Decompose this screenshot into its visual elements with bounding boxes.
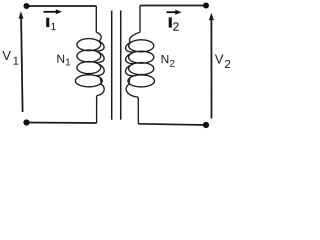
wire bottom-right — [138, 124, 206, 125]
label I2 — [169, 17, 172, 27]
current arrow I2 — [167, 10, 182, 15]
wire bottom-left — [27, 122, 97, 125]
transformer core right bar — [120, 11, 122, 120]
inductor coil N1 (primary winding) — [75, 6, 104, 123]
transformer core left bar — [111, 11, 113, 120]
terminal node top-right — [203, 3, 209, 9]
label N1 — [57, 55, 70, 66]
terminal node bottom-left — [23, 119, 29, 125]
wire top-left — [27, 5, 97, 7]
voltage arrow V1 — [19, 11, 24, 112]
label V1 — [2, 51, 18, 65]
wire top-right — [140, 5, 206, 7]
terminal node top-left — [24, 3, 30, 9]
label I1 — [46, 18, 49, 27]
terminal node bottom-right — [203, 122, 209, 128]
label V2 — [215, 55, 230, 68]
voltage arrow V2 — [209, 13, 214, 119]
current arrow I1 — [44, 9, 63, 14]
label N2 — [162, 55, 175, 67]
inductor coil N2 (secondary winding) — [126, 6, 155, 124]
